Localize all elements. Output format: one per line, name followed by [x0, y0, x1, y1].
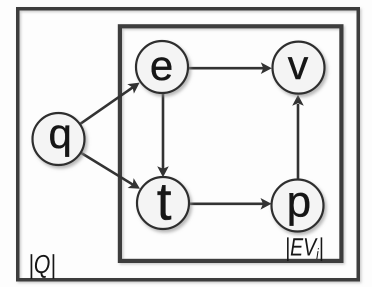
- svg-text:q: q: [49, 110, 72, 157]
- svg-text:e: e: [150, 42, 173, 89]
- svg-text:p: p: [287, 178, 311, 227]
- svg-text:|Q|: |Q|: [28, 249, 55, 279]
- svg-text:t: t: [157, 173, 172, 232]
- svg-text:v: v: [288, 42, 309, 88]
- svg-text:|EVi|: |EVi|: [285, 234, 324, 264]
